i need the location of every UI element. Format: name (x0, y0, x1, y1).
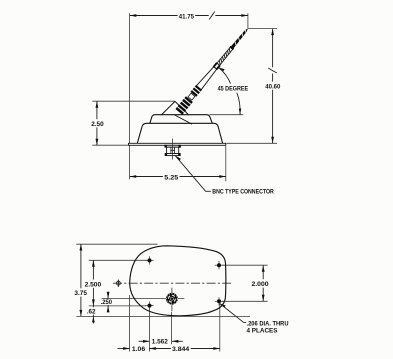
mount block left edge (161, 101, 175, 115)
label 2.000 (250, 279, 270, 287)
svg-text:4 PLACES: 4 PLACES (247, 327, 278, 334)
arrow left of 5.25 (130, 175, 137, 178)
wire: vertical extension connector column (171, 312, 173, 344)
svg-text:1.562: 1.562 (152, 339, 168, 346)
label 2.50 (90, 119, 105, 127)
dimension 41.75 line (130, 15, 248, 17)
connector centerline (172, 139, 174, 160)
wire: extension from top-left hole for 2.500 (89, 259, 147, 261)
dome upper plateau outline (150, 115, 212, 124)
dimension 40.60 line (272, 29, 274, 144)
dimension 1.06 / 3.844 row (118, 348, 130, 350)
wire: extension bottom (egg bottom tangent) (76, 315, 250, 317)
neck collar (188, 93, 195, 100)
arrow bottom of 40.60 (271, 137, 274, 144)
svg-text:2.500: 2.500 (85, 281, 102, 288)
label 3.844 (171, 345, 191, 352)
whip middle section with hatching (217, 47, 233, 65)
dimension 2.500 line (92, 260, 94, 306)
break symbol on 40.60 (268, 67, 277, 73)
wire: extension line 2.50 top (to mount block apex) (92, 100, 175, 102)
wire: vertical extension left hole column (148, 309, 150, 352)
arrows 3.75 (80, 244, 83, 251)
arrow at whip end of arc (218, 67, 224, 71)
arrow bottom of 2.50 (96, 139, 99, 146)
arrow left of 41.75 (130, 14, 137, 17)
wire: extension from bottom-left hole (89, 305, 146, 307)
wire: extension from top-right hole (222, 264, 268, 266)
wire: extension line right for 5.25 (225, 146, 227, 181)
svg-text:.62: .62 (87, 308, 96, 315)
arrow of BNC leader (175, 156, 181, 161)
svg-text:45 DEGREE: 45 DEGREE (218, 86, 249, 93)
label 2.500 (83, 280, 102, 288)
svg-text:3.75: 3.75 (74, 290, 87, 297)
arrow right of 41.75 (241, 14, 248, 17)
dimension 1.562 row (139, 340, 150, 342)
spring ring bars group 1 (175, 96, 192, 114)
joint tick at whip sections (229, 46, 234, 50)
centerline symbol (117, 281, 121, 285)
dome lower tier outline (137, 123, 222, 143)
dimension 3.75 line (80, 244, 82, 316)
dimension .62 (shares the 2.500 line; outside arrow below) (92, 306, 94, 317)
mount block top-right edge (175, 101, 189, 115)
label 5.25 (163, 173, 180, 181)
break symbol on 41.75 (209, 11, 216, 20)
central BNC connector (plan view) (166, 288, 178, 312)
label 41.75 (178, 12, 196, 20)
ferrule joint (213, 62, 218, 67)
hole top-right (215, 261, 223, 269)
BNC connector under flange (165, 139, 181, 160)
wire: vertical extension right hole column (219, 304, 221, 352)
svg-text:2.000: 2.000 (252, 281, 269, 288)
bottom flare (165, 154, 180, 156)
svg-text:.250: .250 (101, 299, 113, 306)
svg-text:2.50: 2.50 (91, 121, 104, 128)
label 40.60 (264, 82, 282, 90)
base plate egg outline (130, 246, 226, 316)
wire: horizontal extension from flange top to 40.60 dim (227, 142, 278, 144)
dimension 2.50 line (96, 101, 98, 145)
45 degree arc lower segment (237, 93, 240, 115)
leader to BNC label (175, 156, 211, 192)
dimension .250 (outside arrows) (107, 292, 109, 312)
wire: extension line left (41.75 / 5.25 shared) (129, 13, 131, 179)
dimension 2.000 line (262, 265, 264, 301)
hole bottom-left (145, 301, 153, 309)
body (167, 147, 179, 153)
spring ring bars group 2 (190, 85, 202, 97)
hole top-left (145, 256, 153, 264)
wire: extension line right of 41.75 down to antenna tip (247, 13, 249, 28)
tapered cone section (196, 66, 217, 90)
svg-text:3.844: 3.844 (172, 346, 189, 353)
label .62 (86, 307, 97, 314)
svg-text:BNC TYPE CONNECTOR: BNC TYPE CONNECTOR (212, 189, 274, 196)
antenna whip assembly (rotated frame along axis) (175, 26, 251, 115)
svg-text:41.75: 41.75 (179, 13, 194, 20)
label .250 (100, 299, 113, 305)
wire: extension top (egg top tangent) for 3.75 (76, 243, 157, 245)
dimension 5.25 line (130, 176, 226, 178)
leader to .206 holes note (220, 303, 247, 322)
wire: plateau-top extension to angle reference (210, 114, 244, 116)
wire: extension from bottom-right hole (222, 300, 268, 302)
svg-text:5.25: 5.25 (164, 174, 178, 181)
label 1.562 (151, 338, 169, 345)
45 degree arc upper segment (219, 68, 232, 86)
whip tip section (dark) (231, 27, 249, 48)
label 3.75 (73, 288, 88, 296)
wire: extension line flange-bottom left for 2.50 (92, 144, 128, 146)
arrow right of 5.25 (219, 175, 226, 178)
hole bottom-right (215, 297, 223, 305)
svg-text:1.06: 1.06 (132, 346, 145, 353)
flange plate (129, 143, 226, 145)
collar (165, 145, 181, 147)
label 45 DEGREE (216, 84, 250, 92)
arrow top of 2.50 (96, 101, 99, 108)
arrow top of 40.60 (271, 29, 274, 35)
arrows 2.500 (92, 260, 95, 267)
svg-text:40.60: 40.60 (265, 84, 280, 91)
center pin lines (170, 147, 172, 153)
connector corner ticks (165, 145, 181, 156)
wire: horizontal extension from antenna tip to 40.60 dim (248, 28, 277, 30)
arrow at bottom of arc (239, 109, 241, 115)
wire: vertical extension egg left point (129, 295, 131, 352)
label 1.06 (131, 345, 146, 352)
main horizontal centerline (dash-dot) (113, 282, 231, 284)
wire: extension/centerline through connector (102, 298, 185, 300)
mount block inner edge (175, 115, 193, 124)
